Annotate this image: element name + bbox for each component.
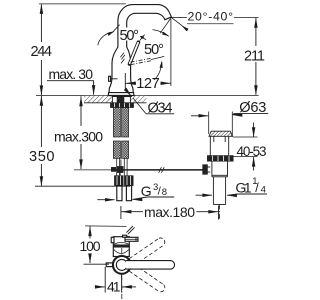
dimension 244 bbox=[31, 4, 53, 96]
svg-text:40-53: 40-53 bbox=[237, 144, 267, 159]
spout swivel arc left bbox=[98, 32, 111, 45]
detail swivel arm dashed upper bbox=[129, 238, 165, 266]
svg-text:G: G bbox=[141, 183, 152, 199]
supply hose right segment 1 bbox=[122, 108, 129, 137]
dimension max.180 bbox=[121, 204, 219, 220]
mini lever raised diagonal mark bbox=[128, 227, 135, 234]
dimension 41 bbox=[95, 267, 136, 295]
text 50 deg spout bbox=[119, 28, 140, 41]
mini joint ellipse bbox=[114, 243, 129, 245]
dimension 350 bbox=[29, 96, 55, 186]
rod clamp tee bbox=[111, 166, 123, 175]
mini top knob bbox=[123, 235, 127, 237]
dimension 100 bbox=[80, 226, 101, 263]
20-40 second arm bbox=[160, 18, 171, 34]
detail left tab bbox=[106, 263, 113, 267]
hose neck tubes bbox=[117, 158, 127, 175]
svg-text:4: 4 bbox=[261, 185, 266, 196]
hose end nut right bbox=[124, 176, 133, 186]
wire top reference line at spout height bbox=[39, 3, 126, 5]
svg-text:max.300: max.300 bbox=[54, 129, 103, 145]
label O34 bbox=[124, 88, 174, 117]
threaded shank bbox=[117, 97, 124, 103]
body shine marks bbox=[120, 53, 125, 64]
svg-text:20°-40°: 20°-40° bbox=[188, 10, 234, 24]
label O63 with arrows bbox=[191, 100, 268, 136]
svg-text:max. 30: max. 30 bbox=[49, 66, 94, 82]
detail view reference line top bbox=[85, 225, 127, 228]
wire spout tip vertical extension bbox=[170, 19, 172, 86]
detail swivel arm dashed lower bbox=[129, 264, 165, 292]
mini body bbox=[113, 237, 129, 257]
svg-text:/: / bbox=[255, 181, 259, 195]
350 bottom reference line bbox=[35, 185, 130, 187]
hose thread tube left bbox=[117, 186, 122, 201]
lever handle open position bbox=[130, 42, 139, 64]
mini lever bar bbox=[125, 237, 138, 241]
detail circle inner bbox=[116, 259, 127, 270]
pop-up knob left of body bbox=[109, 76, 118, 81]
faucet shank seal dark bbox=[112, 94, 131, 97]
drain rod connector block bbox=[203, 165, 211, 175]
label G 3/8 bbox=[97, 182, 174, 201]
svg-text:127: 127 bbox=[136, 76, 160, 92]
svg-text:G1: G1 bbox=[235, 180, 251, 196]
hose thread tube right bbox=[126, 186, 131, 201]
svg-text:8: 8 bbox=[162, 187, 167, 198]
faucet body and spout bbox=[109, 5, 171, 93]
detail bottom reference line bbox=[84, 263, 110, 265]
drain flange bbox=[209, 131, 233, 136]
drain tailpiece lower bbox=[213, 177, 225, 205]
svg-text:211: 211 bbox=[244, 49, 265, 65]
drain lock nut bbox=[207, 156, 233, 162]
dimension 127 bbox=[125, 73, 170, 92]
label max.30 bbox=[47, 66, 95, 95]
svg-text:max.180: max.180 bbox=[144, 204, 195, 220]
svg-text:50°: 50° bbox=[120, 28, 140, 44]
counter slab bbox=[84, 96, 147, 103]
detail mini faucet side view bbox=[111, 226, 138, 257]
mini dark band bbox=[113, 245, 129, 248]
mini left tab bbox=[111, 237, 114, 242]
supply hose right segment 2 bbox=[122, 141, 129, 158]
rod break marks bbox=[159, 167, 162, 173]
supply hose left segment 1 bbox=[113, 108, 120, 137]
svg-text:50°: 50° bbox=[144, 42, 164, 58]
supply hose left segment 2 bbox=[113, 141, 120, 158]
drain center line bbox=[219, 205, 221, 220]
drain body bbox=[210, 136, 228, 155]
detail circle outer bbox=[113, 256, 131, 274]
mini bowl curve bbox=[114, 250, 129, 254]
lever closed position dash-dot bbox=[131, 58, 151, 64]
handle angle arc arrow bbox=[154, 62, 162, 80]
svg-text:100: 100 bbox=[80, 238, 101, 254]
lever tip mark bbox=[139, 35, 145, 42]
spout swivel arc right bbox=[153, 30, 169, 37]
20-40 angle arm with arrow bbox=[171, 17, 188, 30]
pop-up horizontal rod reference left bbox=[74, 169, 112, 171]
swivel tick through riser bbox=[112, 25, 120, 33]
dimension 40-53 bbox=[233, 123, 267, 171]
dimension 211 bbox=[244, 18, 265, 95]
pop-up vertical rod bbox=[120, 160, 122, 171]
svg-text:350: 350 bbox=[29, 149, 55, 165]
label G1 1/4 bbox=[196, 176, 267, 197]
base plate bbox=[108, 93, 134, 96]
hose end nut left bbox=[114, 176, 123, 186]
lever closed leader bbox=[151, 56, 164, 59]
pop-up horizontal rod bbox=[111, 169, 204, 171]
drain tailpiece upper bbox=[212, 161, 228, 177]
svg-text:244: 244 bbox=[31, 44, 53, 60]
detail center line bbox=[121, 248, 123, 299]
wire spout tip level line / 20-40 underline bbox=[171, 16, 187, 18]
dimension max.300 bbox=[54, 96, 103, 169]
wire counter reference line bbox=[36, 94, 259, 96]
mounting nut bbox=[110, 103, 133, 108]
svg-text:41: 41 bbox=[107, 279, 121, 295]
detail solid arm bbox=[126, 261, 175, 270]
